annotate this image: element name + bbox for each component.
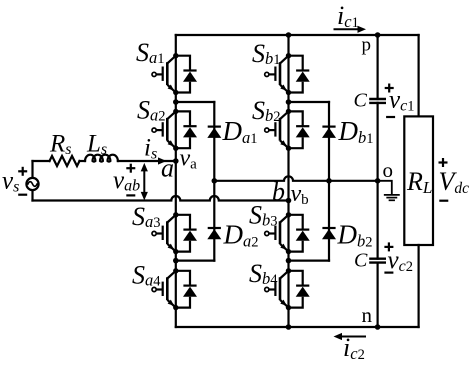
- IGBT Sb1: [265, 53, 310, 95]
- leg a top wire: [175, 35, 177, 56]
- svg-text:b: b: [272, 177, 285, 206]
- clamp diode Db2: [322, 228, 336, 239]
- node n dot: [375, 324, 381, 330]
- leg b segment S1-S2: [287, 93, 289, 112]
- leg b segment S2-S3: [287, 148, 289, 215]
- current arrow ic1: [334, 26, 367, 33]
- clamp diode Da1: [207, 127, 221, 138]
- bottom rail n: [176, 326, 419, 328]
- load resistor RL: [404, 116, 433, 245]
- sine inside source: [28, 182, 37, 187]
- wire source to resistor: [33, 160, 50, 162]
- leg a segment S3-S4: [175, 252, 177, 271]
- svg-text:n: n: [362, 303, 373, 327]
- voltage arrow vab (double headed): [141, 163, 148, 201]
- minus sign source: [18, 194, 27, 196]
- o-bus clamp b dot: [326, 178, 332, 184]
- node o dot: [375, 178, 381, 184]
- dc bus upper segment: [377, 35, 379, 99]
- node a dot: [173, 158, 179, 164]
- capacitor C upper: [369, 99, 386, 103]
- right branch top stub: [418, 35, 420, 116]
- svg-text:a: a: [161, 153, 174, 182]
- IGBT Sa1: [152, 53, 197, 95]
- plus sign vc1: [385, 84, 394, 93]
- o-bus clamp a dot: [212, 178, 218, 184]
- wire inductor to node a: [118, 160, 176, 162]
- svg-text:p: p: [362, 35, 372, 56]
- leg b bottom wire: [287, 308, 289, 327]
- minus sign vc2: [384, 272, 393, 274]
- source loop left vertical bottom: [31, 190, 33, 200]
- leg a bottom wire: [175, 308, 177, 327]
- current arrow ic2: [334, 333, 367, 340]
- resistor Rs: [50, 156, 80, 166]
- IGBT Sa4: [152, 268, 197, 310]
- clamp a bottom dot: [173, 258, 179, 264]
- leg b top wire: [287, 35, 289, 56]
- clamp b bottom dot: [286, 258, 292, 264]
- leg a segment S2-S3: [175, 148, 177, 215]
- node b dot: [286, 198, 292, 204]
- top rail p: [176, 34, 419, 36]
- IGBT Sb3: [265, 212, 310, 254]
- clamp a lower connector: [176, 260, 215, 262]
- source return wire with hops over leg a and clamp a: [33, 196, 289, 201]
- capacitor C lower: [369, 259, 386, 263]
- IGBT Sa3: [152, 212, 197, 254]
- ground stub at o: [378, 181, 392, 194]
- IGBT Sa2: [152, 109, 197, 151]
- o bus wire with hop over leg b: [214, 176, 377, 180]
- current arrow is: [141, 157, 167, 164]
- dc bus lower segment: [377, 263, 379, 327]
- leg b segment S3-S4: [287, 252, 289, 271]
- source loop left vertical top: [31, 161, 33, 178]
- ac source circle: [26, 178, 38, 190]
- plus sign vab: [126, 164, 135, 173]
- clamp a upper connector: [176, 101, 215, 103]
- clamp b lower connector: [289, 260, 330, 262]
- minus sign vab: [126, 194, 135, 196]
- clamp a top dot: [173, 99, 179, 105]
- leg a segment S1-S2: [175, 93, 177, 112]
- plus sign source: [18, 167, 27, 176]
- svg-text:o: o: [383, 158, 394, 182]
- clamp a vertical: [213, 102, 215, 261]
- minus sign Vdc: [439, 200, 448, 202]
- IGBT Sb2: [265, 109, 310, 151]
- plus sign vc2: [384, 242, 393, 251]
- minus sign vc1: [386, 116, 395, 118]
- junction dot leg b top: [286, 32, 292, 38]
- svg-text:C: C: [354, 249, 368, 271]
- right branch bottom stub: [418, 245, 420, 327]
- IGBT Sb4: [265, 268, 310, 310]
- ground bars: [385, 194, 399, 196]
- plus sign Vdc: [439, 158, 448, 167]
- clamp diode Db1: [322, 127, 336, 138]
- svg-text:C: C: [354, 90, 368, 112]
- clamp diode Da2: [207, 228, 221, 239]
- clamp b top dot: [286, 99, 292, 105]
- clamp b vertical: [328, 102, 330, 261]
- inductor Ls: [85, 155, 118, 162]
- dc bus middle segment: [377, 103, 379, 259]
- bottom rail leg b dot: [286, 324, 292, 330]
- wire resistor to inductor: [80, 160, 86, 162]
- clamp b upper connector: [289, 101, 330, 103]
- junction dot p: [375, 32, 381, 38]
